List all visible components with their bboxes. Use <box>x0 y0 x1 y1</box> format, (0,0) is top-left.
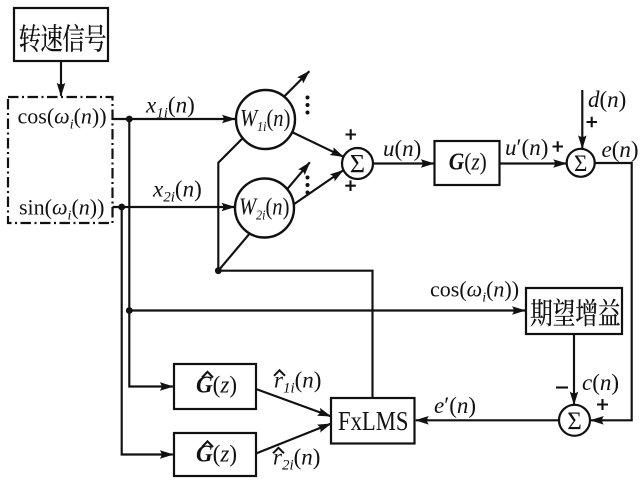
svg-text:FxLMS: FxLMS <box>338 406 409 436</box>
box: Ghat1 <box>174 364 256 409</box>
svg-text:G(z): G(z) <box>449 150 487 176</box>
wire e'(n): sum3 to FxLMS <box>416 419 559 421</box>
wire x1i(n): cos output to W1i <box>113 118 236 120</box>
plus sign at sum2 top input <box>587 117 598 128</box>
wire: cos branch to expected-gain box <box>129 309 525 311</box>
wire rhat2i: Ghat2 to FxLMS <box>256 424 331 454</box>
wire: update arrow through W2i <box>218 162 309 270</box>
svg-text:Σ: Σ <box>350 150 365 179</box>
minus sign at sum3 top input <box>556 386 568 388</box>
node: cos to expected-gain junction <box>126 307 133 314</box>
svg-text:e′(n): e′(n) <box>434 393 476 418</box>
svg-text:x1i(n): x1i(n) <box>145 93 195 122</box>
summer sum3 <box>559 405 590 436</box>
wire: update arrow through W1i <box>218 71 309 271</box>
svg-text:u(n): u(n) <box>383 136 421 161</box>
svg-text:Σ: Σ <box>574 151 587 176</box>
summer sum1 <box>342 148 373 179</box>
circle: weight W1i <box>236 90 295 149</box>
circle: weight W2i <box>235 179 294 238</box>
box: reference signal generator (dash-dot) <box>8 97 113 223</box>
svg-text:Σ: Σ <box>567 408 582 435</box>
svg-text:e(n): e(n) <box>602 137 639 162</box>
wire: sin branch down to Ghat2 <box>122 207 173 455</box>
svg-text:u′(n): u′(n) <box>505 135 548 160</box>
wire e(n): sum2 to sum3 feedback <box>591 163 632 420</box>
wire: FxLMS weight-update bus <box>218 271 372 398</box>
svg-text:x2i(n): x2i(n) <box>152 177 202 206</box>
wire c(n): expected-gain to sum3 <box>573 334 575 405</box>
plus sign at sum1 lower input <box>345 180 356 191</box>
wire: W2i to sum1 <box>294 171 343 205</box>
node: sin junction <box>118 204 125 211</box>
box: FxLMS <box>331 398 415 444</box>
wire: cos branch down to Ghat1 <box>129 119 173 387</box>
plus sign at sum3 right input <box>597 399 608 410</box>
wire rhat1i: Ghat1 to FxLMS <box>256 389 331 416</box>
ellipsis dots above W1i output <box>306 96 310 100</box>
summer sum2 <box>567 149 595 177</box>
wire: speed signal to reference generator <box>60 61 62 96</box>
box: speed signal (zhuansu xinhao) <box>14 8 108 61</box>
wire x2i(n): sin output to W2i <box>113 206 235 208</box>
box: secondary path G(z) <box>435 141 500 185</box>
plus sign at sum1 upper input <box>346 129 357 140</box>
svg-text:G(z): G(z) <box>196 442 237 468</box>
wire u(n): sum1 to G(z) <box>373 162 434 164</box>
wire d(n) into sum2 <box>581 90 583 148</box>
svg-text:sin(ωi(n)): sin(ωi(n)) <box>19 194 104 223</box>
ellipsis dots above W2i output <box>306 176 310 180</box>
box: Ghat2 <box>174 433 256 476</box>
label: expected gain text <box>531 298 620 326</box>
plus sign at sum2 left input <box>553 141 564 152</box>
svg-text:cos(ωi(n)): cos(ωi(n)) <box>18 104 107 133</box>
svg-text:cos(ωi(n)): cos(ωi(n)) <box>430 277 519 306</box>
wire u'(n): G(z) to sum2 <box>500 162 567 164</box>
box: expected gain (qiwang zengyi) <box>526 288 622 334</box>
node: weight-update junction <box>215 267 222 274</box>
svg-text:d(n): d(n) <box>588 87 626 112</box>
svg-text:c(n): c(n) <box>582 370 619 395</box>
wire: W1i to sum1 <box>293 132 344 156</box>
node: cos junction <box>126 116 133 123</box>
label: speed signal text <box>20 24 106 52</box>
